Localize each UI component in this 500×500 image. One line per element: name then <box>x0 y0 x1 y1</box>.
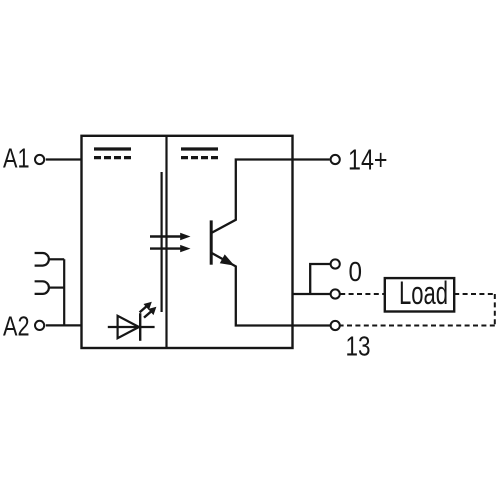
dashed wire corner vertical <box>494 294 496 326</box>
DC symbol left (dashed bar) <box>94 156 131 159</box>
module body box <box>82 136 293 348</box>
branch up to 0 circle <box>310 264 330 294</box>
phototransistor emitter wire to 13 <box>211 253 330 326</box>
terminal circle A1 <box>35 155 44 164</box>
phototransistor Q1 base bar <box>210 220 213 264</box>
light coupling arrow 1 <box>150 235 185 237</box>
LED D1 cathode bar <box>139 313 141 341</box>
terminal circle 13 <box>331 321 340 330</box>
svg-text:0: 0 <box>349 256 363 287</box>
wire contact 1 to bus <box>49 258 64 260</box>
phototransistor emitter arrowhead <box>220 254 235 265</box>
wire 0-terminal branch <box>293 293 331 295</box>
LED emission arrow 2 <box>144 310 153 317</box>
Load box <box>385 278 454 311</box>
dashed wire circle-mid to Load <box>340 293 385 295</box>
LED D1 triangle <box>118 316 139 338</box>
LED D1 anode/cathode wire <box>108 326 155 328</box>
connector contact symbol 1 <box>35 253 49 266</box>
light coupling arrow 2 <box>150 247 185 249</box>
contact bus vertical wire <box>63 259 65 325</box>
dashed wire return to 13 <box>340 325 495 327</box>
DC symbol right (solid bar) <box>181 147 218 150</box>
svg-text:A2: A2 <box>3 311 30 342</box>
terminal circle A2 <box>35 321 44 330</box>
internal divider wall <box>165 136 167 348</box>
terminal circle mid (load) <box>331 289 340 298</box>
phototransistor collector wire to 14+ <box>211 160 330 234</box>
dashed wire Load to corner <box>454 293 495 295</box>
DC symbol right (dashed bar) <box>181 156 218 159</box>
terminal circle 14+ <box>331 155 340 164</box>
isolation barrier line <box>161 172 163 312</box>
svg-text:13: 13 <box>346 331 371 362</box>
svg-text:A1: A1 <box>3 143 30 174</box>
DC symbol left (solid bar) <box>94 147 131 150</box>
wire contact 2 to bus <box>49 287 64 289</box>
svg-text:14+: 14+ <box>348 145 388 177</box>
svg-text:Load: Load <box>399 275 448 311</box>
connector contact symbol 2 <box>35 281 49 294</box>
LED emission arrow 1 <box>140 305 148 312</box>
terminal circle 0 <box>331 259 340 268</box>
wire A2 to box <box>46 324 82 326</box>
wire A1 to box <box>46 158 82 160</box>
